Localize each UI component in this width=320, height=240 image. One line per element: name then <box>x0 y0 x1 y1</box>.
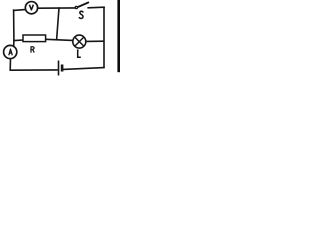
voltmeter V <box>25 2 37 14</box>
border bar at right edge <box>117 0 120 72</box>
wire middle vertical tie <box>57 8 59 40</box>
wire left vertical junction to ammeter <box>13 41 15 47</box>
label L <box>77 50 81 57</box>
ammeter A <box>4 45 17 58</box>
wire bottom left to battery <box>10 69 57 71</box>
battery long plate <box>58 61 60 76</box>
label S <box>79 11 83 18</box>
wire left vertical top segment <box>13 10 15 41</box>
wire voltmeter to switch contact <box>38 7 75 9</box>
wire top-left horizontal to voltmeter <box>14 9 26 12</box>
wire bottom battery to right corner <box>63 68 104 70</box>
wire right vertical <box>103 7 105 67</box>
wire lamp to right vertical <box>86 40 103 42</box>
lamp L <box>73 35 86 48</box>
switch S contact <box>75 6 77 8</box>
battery short plate <box>61 65 64 72</box>
switch S blade <box>78 3 89 8</box>
wire switch to top-right corner <box>88 6 104 9</box>
resistor R <box>23 35 46 42</box>
wire resistor to lamp <box>46 39 73 40</box>
wire junction to resistor <box>14 39 23 42</box>
label R <box>31 46 34 52</box>
wire left vertical below ammeter <box>9 59 11 70</box>
